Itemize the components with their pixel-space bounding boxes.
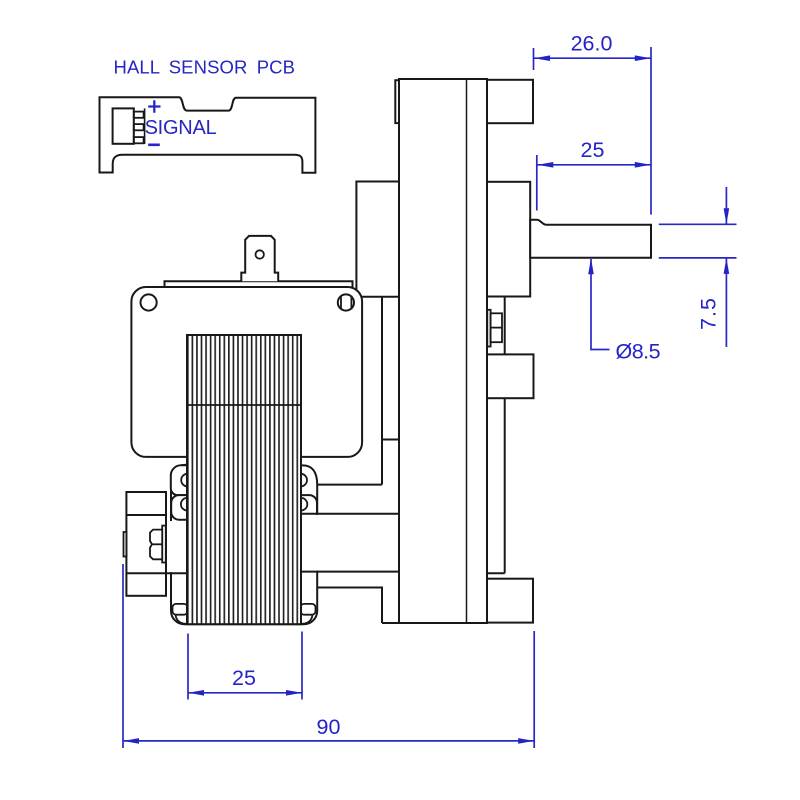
bracket hole left — [141, 294, 157, 310]
screw tip — [124, 532, 127, 557]
grub screw head — [491, 313, 502, 342]
left boss lobe lower — [171, 495, 188, 520]
stack fill — [187, 335, 301, 624]
dim 25 top ext left — [536, 155, 538, 211]
back plate strip edge — [487, 297, 505, 574]
dim 90 line — [123, 740, 534, 742]
grub screw seat bar — [487, 310, 490, 347]
svg-text:90: 90 — [317, 715, 341, 739]
svg-text:25: 25 — [581, 138, 605, 162]
dim 7.5 ext bottom — [659, 257, 737, 259]
svg-text:Ø8.5: Ø8.5 — [616, 340, 661, 364]
dim 7.5 ext top — [659, 223, 737, 225]
screw hex head — [150, 530, 162, 560]
arrow 26.0 left — [534, 55, 550, 61]
arrow 26.0 right — [635, 55, 651, 61]
arrow 25 bottom left — [188, 690, 204, 696]
connector pin 1 — [134, 112, 144, 118]
stack outline — [187, 335, 301, 624]
svg-text:SIGNAL: SIGNAL — [145, 117, 217, 139]
right foot hook — [302, 615, 313, 624]
spacer plate top — [356, 182, 399, 297]
arrow 90 left — [123, 738, 139, 744]
svg-text:7.5: 7.5 — [697, 297, 721, 330]
stack hatch — [188, 335, 301, 624]
pcb outline — [100, 97, 316, 173]
left boss hole upper — [181, 474, 194, 487]
gearbox housing main rect — [399, 79, 487, 623]
hex head mid line — [152, 543, 162, 545]
right mid block — [487, 354, 534, 398]
left foot — [173, 604, 188, 615]
shaft with hub fillet — [530, 220, 651, 258]
shaft boss — [487, 182, 530, 297]
dim 26.0/25 shared ext right — [650, 47, 652, 215]
right boss hole lower — [295, 498, 308, 511]
svg-text:26.0: 26.0 — [571, 31, 613, 55]
svg-text:25: 25 — [232, 666, 256, 690]
connector edge line — [144, 108, 146, 144]
bracket plate — [131, 287, 362, 457]
connector pin 3 — [134, 137, 144, 143]
left boss lobe upper — [171, 465, 188, 495]
stack joint line — [187, 404, 301, 406]
block top line — [302, 513, 399, 515]
dim 90 ext right — [533, 631, 535, 748]
right top tab — [487, 80, 533, 123]
bracket band bottom — [126, 572, 187, 574]
left bracket body — [126, 492, 166, 596]
gearbox cover split line — [466, 79, 468, 623]
bracket hole right — [338, 294, 354, 310]
dim 26.0 line — [534, 57, 651, 59]
dim 25 bottom line — [188, 692, 302, 694]
pcb labels — [114, 57, 296, 145]
right bottom tab — [487, 579, 533, 623]
svg-text:HALL SENSOR PCB: HALL SENSOR PCB — [114, 57, 296, 78]
left thin tab — [395, 80, 399, 123]
bracket band top — [126, 514, 166, 516]
dim 25 bottom ext right — [301, 632, 303, 700]
gearbox bottom extension — [382, 622, 399, 624]
right boss lobe lower — [300, 495, 317, 520]
mounting block between motor and gearbox — [302, 514, 399, 572]
dim 25 bottom ext left — [187, 634, 189, 700]
hidden casing edge patch — [168, 521, 176, 572]
plate edge vertical upper — [381, 297, 383, 485]
block fill — [302, 515, 398, 571]
left foot hook — [176, 615, 187, 624]
leader dia8.5 — [591, 259, 610, 350]
terminal tab — [241, 236, 278, 281]
right foot — [301, 604, 316, 615]
terminal hole — [256, 250, 264, 258]
arrow 7.5 down — [724, 208, 730, 224]
end bell outline — [171, 465, 317, 624]
dim 7.5 line lower — [725, 258, 727, 347]
bracket slot right — [341, 296, 351, 310]
screw washer — [162, 526, 166, 563]
arrow 7.5 up — [724, 258, 730, 274]
connector body — [113, 108, 134, 143]
plus symbol — [148, 100, 160, 112]
bracket lip plate — [165, 281, 353, 287]
arrow 90 right — [518, 738, 534, 744]
left boss hole lower — [181, 498, 194, 511]
block bottom line — [302, 571, 399, 573]
step line lower — [318, 588, 382, 624]
short step line — [382, 439, 399, 441]
arrow dia8.5 up — [588, 258, 594, 274]
dim 25 top line — [537, 164, 651, 166]
arrow 25 bottom right — [286, 690, 302, 696]
arrow 25 top right — [635, 162, 651, 168]
minus symbol — [148, 144, 160, 147]
dim 90 ext left — [122, 564, 124, 748]
plate bottom step — [317, 484, 382, 486]
connector pin 2 — [134, 124, 144, 130]
arrow 25 top left — [537, 162, 553, 168]
dim 26.0 ext left — [533, 48, 535, 70]
right boss hole upper — [294, 474, 307, 487]
dim 7.5 line upper — [725, 187, 727, 224]
